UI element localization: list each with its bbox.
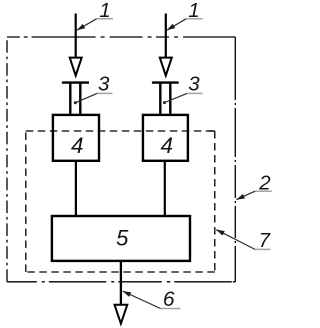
- svg-text:3: 3: [98, 73, 110, 96]
- label 1 left with leader: [77, 0, 113, 30]
- enclosure border 2 (dash-dot rectangle): [7, 37, 235, 282]
- open arrowhead on right input: [160, 58, 172, 76]
- label 2 with leader: [237, 172, 272, 200]
- svg-text:6: 6: [163, 288, 175, 311]
- svg-text:5: 5: [116, 226, 129, 251]
- label 3 left with leader and dot: [74, 73, 113, 105]
- open arrowhead on left input: [70, 58, 82, 76]
- svg-text:3: 3: [188, 73, 200, 96]
- wire: left block 4 to block 5: [75, 160, 77, 217]
- label 7 with leader: [216, 229, 271, 252]
- wire: output line 6: [120, 260, 122, 305]
- sensor symbol 3 right (bar with twin leads): [152, 83, 179, 115]
- svg-text:7: 7: [259, 229, 272, 252]
- label 3 right with leader and dot: [163, 73, 203, 105]
- block 4 right (converter box): [143, 115, 188, 161]
- wire: right block 4 to block 5: [164, 160, 166, 217]
- label 1 right with leader: [167, 0, 203, 30]
- device border 7 (dashed rectangle, drawn over blocks): [26, 131, 215, 272]
- svg-text:4: 4: [161, 133, 174, 158]
- block 5 (combiner box): [52, 216, 190, 261]
- svg-text:4: 4: [71, 133, 84, 158]
- block 4 left (converter box): [53, 115, 99, 161]
- label 6 with leader: [123, 288, 181, 311]
- wire: left input line 1: [75, 14, 77, 58]
- open arrowhead on output: [115, 305, 128, 324]
- sensor symbol 3 left (bar with twin leads): [62, 83, 89, 115]
- wire: right input line 1: [165, 14, 167, 58]
